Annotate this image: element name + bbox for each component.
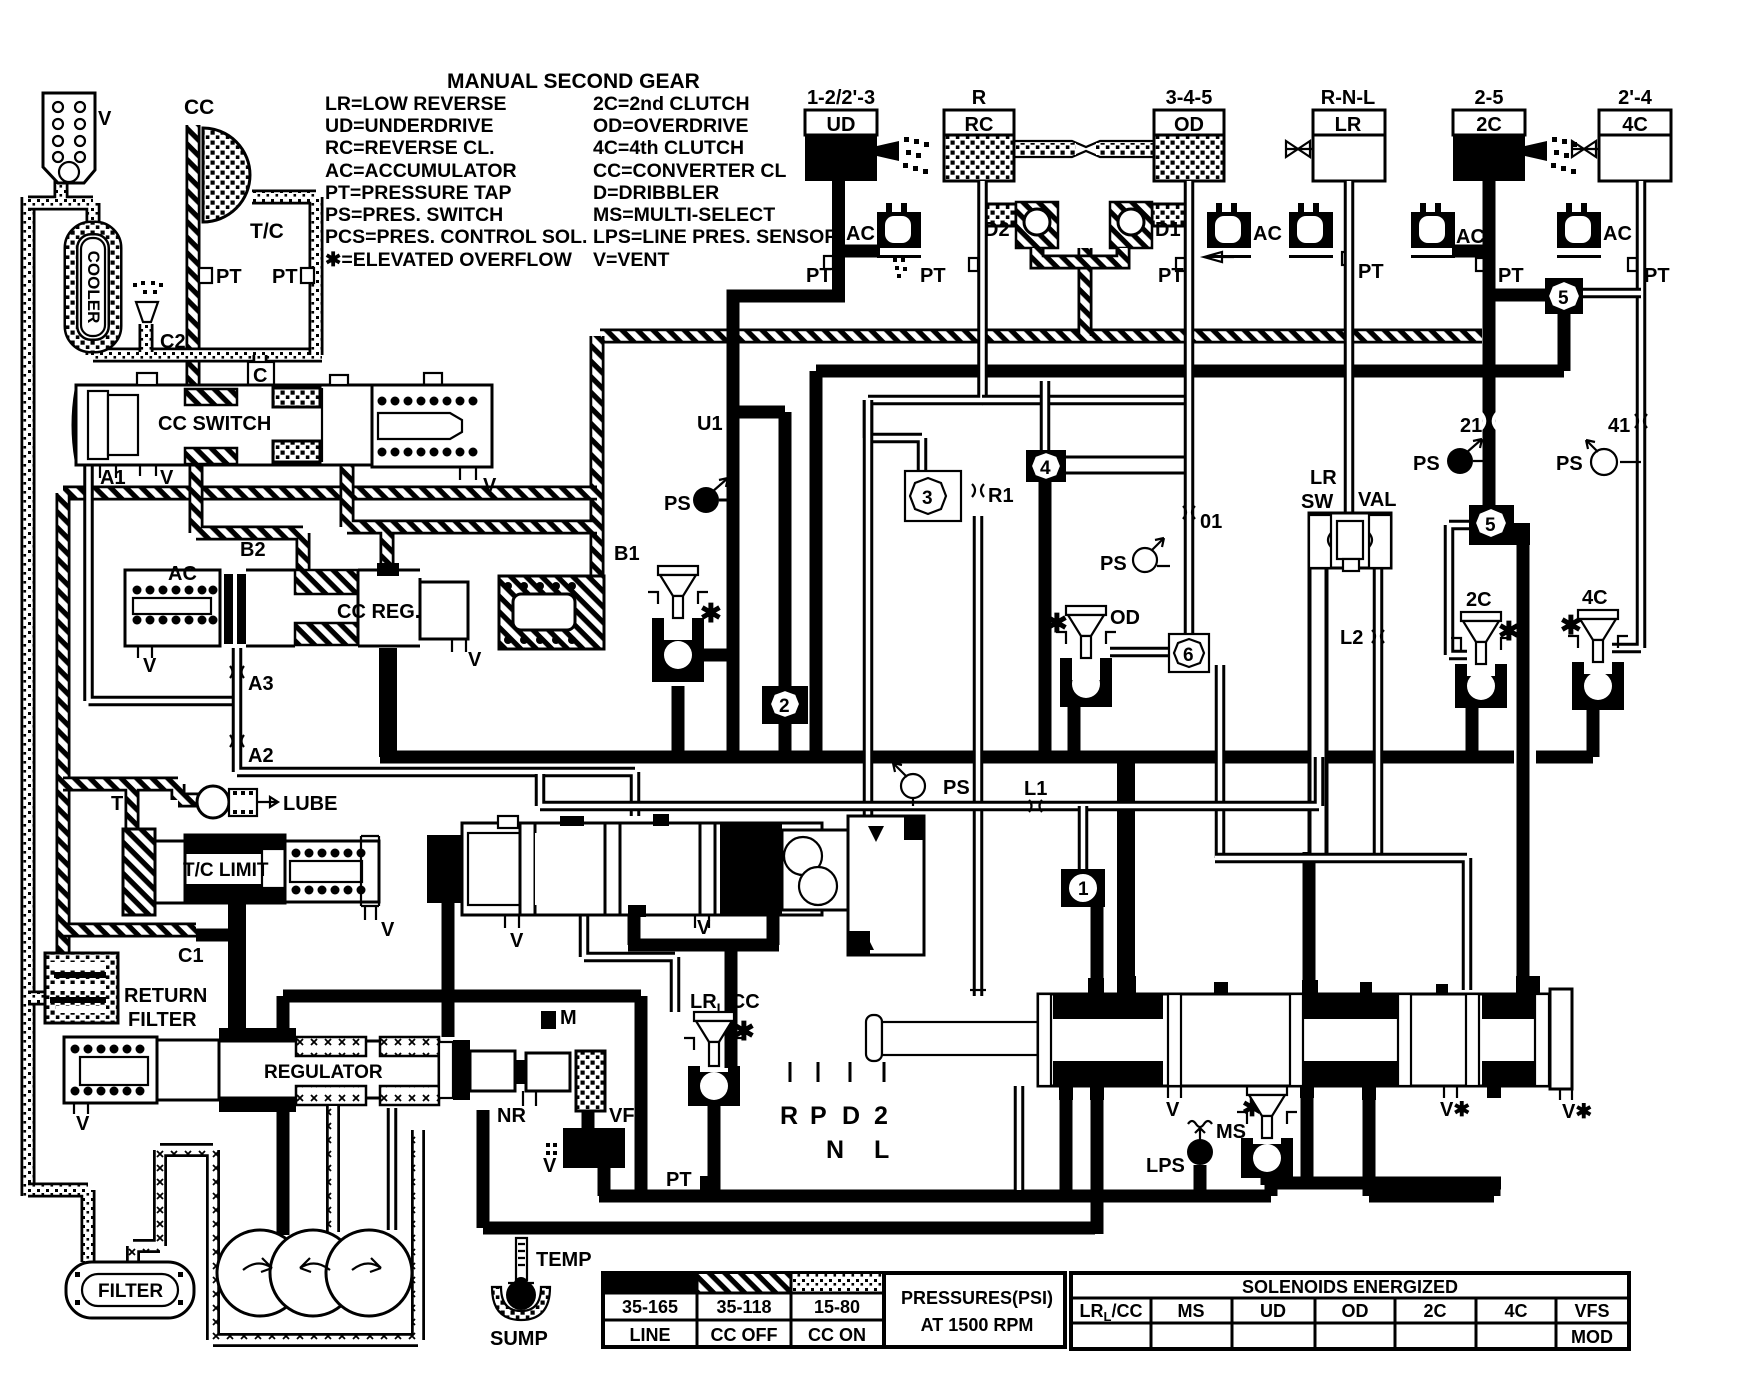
stipple tee R to D2 <box>985 204 1016 226</box>
svg-text:B2: B2 <box>240 539 266 561</box>
svg-text:AC: AC <box>846 223 875 245</box>
svg-text:PT=PRESSURE TAP: PT=PRESSURE TAP <box>325 182 512 204</box>
svg-text:V: V <box>510 930 524 952</box>
SEC:LINES <box>63 125 1482 953</box>
wire: B2 riser and line <box>196 464 303 573</box>
svg-text:5: 5 <box>1558 288 1569 309</box>
svg-text:R-N-L: R-N-L <box>1321 87 1375 109</box>
sump <box>492 1287 550 1320</box>
svg-text:PS=PRES. SWITCH: PS=PRES. SWITCH <box>325 204 503 226</box>
wire: thick CC REG output down <box>379 648 397 757</box>
valve REGULATOR <box>64 1037 157 1103</box>
svg-text:OD=OVERDRIVE: OD=OVERDRIVE <box>593 115 749 137</box>
wire: thick badge5-mid down to manual valve <box>1517 545 1530 998</box>
svg-text:OD: OD <box>1110 607 1140 629</box>
wire: B1 riser from CC SWITCH and y527 line <box>347 464 597 568</box>
svg-text:VF: VF <box>609 1105 635 1127</box>
svg-text:CC ON: CC ON <box>808 1325 866 1345</box>
svg-text:LR: LR <box>1310 467 1337 489</box>
svg-text:LR=LOW REVERSE: LR=LOW REVERSE <box>325 93 506 115</box>
svg-text:CC: CC <box>184 96 214 119</box>
svg-text:D=DRIBBLER: D=DRIBBLER <box>593 182 719 204</box>
wire: thin badge6 drop x1220 <box>1215 665 1226 858</box>
svg-text:PT: PT <box>920 265 946 287</box>
svg-text:✱: ✱ <box>1046 608 1068 638</box>
C2 dribbler <box>136 302 158 322</box>
dribbler at UD <box>877 141 899 161</box>
C port <box>248 362 274 386</box>
solenoid PCS <box>563 1128 625 1168</box>
svg-text:R: R <box>780 1102 798 1130</box>
svg-text:V✱: V✱ <box>1440 1099 1470 1121</box>
svg-text:V: V <box>160 467 174 489</box>
svg-text:2C: 2C <box>1476 114 1502 136</box>
thin line from badge5 top to 41 line <box>1583 288 1641 299</box>
SEC:CENTER <box>427 413 1014 955</box>
wire: thin manual valve left bottom pair <box>1014 1086 1025 1190</box>
svg-text:35-165: 35-165 <box>622 1297 678 1317</box>
valve manual valve <box>866 1015 882 1061</box>
svg-text:REGULATOR: REGULATOR <box>264 1062 383 1083</box>
svg-text:✱=ELEVATED OVERFLOW: ✱=ELEVATED OVERFLOW <box>325 249 573 271</box>
wire: long CC-OFF hatched line y336 <box>600 329 1482 344</box>
svg-text:PT: PT <box>1644 265 1670 287</box>
svg-text:SOLENOIDS ENERGIZED: SOLENOIDS ENERGIZED <box>1242 1277 1458 1297</box>
svg-text:R1: R1 <box>988 485 1014 507</box>
svg-text:PT: PT <box>1358 261 1384 283</box>
wire: thick badge4 leg <box>1039 480 1052 757</box>
svg-text:UD: UD <box>1260 1301 1286 1321</box>
svg-text:2: 2 <box>779 696 790 717</box>
wire: thick NR return line <box>483 1110 1095 1228</box>
CC REG spring chamber <box>499 576 604 649</box>
table pressures legend <box>603 1273 884 1347</box>
svg-text:2: 2 <box>874 1102 888 1130</box>
valve CC SWITCH <box>76 385 492 465</box>
SEC:LEFT <box>43 93 314 387</box>
svg-text:CC OFF: CC OFF <box>711 1325 778 1345</box>
stipple tee D1 to OD line <box>1152 204 1192 226</box>
svg-text:PT: PT <box>272 266 298 288</box>
svg-text:PT: PT <box>1158 265 1184 287</box>
wire: hatched D2 drop to y336 <box>1078 248 1093 336</box>
LUBE regulator ball <box>197 786 229 818</box>
svg-text:RETURN: RETURN <box>124 985 207 1007</box>
svg-text:V: V <box>1166 1099 1180 1121</box>
wire: thick LPS stub <box>1194 1165 1207 1190</box>
wire: thick LRL/CC check leg <box>708 1104 721 1196</box>
wire: thick solenoid valve right drop to LRL/CC <box>628 912 779 1068</box>
wire: thin 4C clutch line down to 4C check <box>1612 181 1641 648</box>
check mark below LR AC <box>1204 252 1234 262</box>
svg-text:A2: A2 <box>248 745 274 767</box>
dribbler at 2C <box>1525 141 1547 161</box>
thin R1 foot at manual valve <box>970 989 986 991</box>
wire: thick regulator out top line right and down <box>283 996 641 1196</box>
wire: thick UD clutch line from box down and left to U1 <box>733 179 839 757</box>
svg-text:3: 3 <box>922 488 933 509</box>
svg-text:MS=MULTI-SELECT: MS=MULTI-SELECT <box>593 204 775 226</box>
svg-text:V: V <box>76 1113 90 1135</box>
svg-text:FILTER: FILTER <box>98 1281 163 1302</box>
wire: hatched U between D2 and D1 <box>1037 248 1123 262</box>
svg-text:LR: LR <box>1335 114 1362 136</box>
svg-text:AC=ACCUMULATOR: AC=ACCUMULATOR <box>325 160 517 182</box>
svg-text:2-5: 2-5 <box>1475 87 1504 109</box>
wire: thick 2C AC tee <box>1452 245 1489 258</box>
wire: thick U1 branch to badge2 <box>733 412 785 757</box>
pressure switch PS at 41 <box>1591 449 1617 475</box>
wire: thick UD check outlet to U1 line <box>697 649 727 662</box>
wire: thin y394 line to OD column <box>982 395 1189 406</box>
svg-text:V✱: V✱ <box>1562 1101 1592 1123</box>
svg-text:A1: A1 <box>100 467 126 489</box>
svg-text:4C: 4C <box>1622 114 1648 136</box>
svg-text:B1: B1 <box>614 543 640 565</box>
wire: thick 2C check leg <box>1466 708 1479 757</box>
wire: thick AC tee at UD <box>838 245 880 258</box>
SEC:BOTTOM <box>866 976 1592 1123</box>
svg-text:VAL: VAL <box>1358 489 1397 511</box>
svg-text:15-80: 15-80 <box>814 1297 860 1317</box>
solenoid switch valve black section and spool <box>720 823 782 915</box>
wire: thin LR clutch line down to LR SW VAL <box>1344 181 1355 515</box>
manual valve bottom port pads <box>1059 1086 1073 1100</box>
manual valve vents <box>1168 1086 1181 1098</box>
svg-text:V: V <box>143 655 157 677</box>
wire: thin 4C PS stub line <box>1620 461 1641 463</box>
svg-text:V=VENT: V=VENT <box>593 249 669 271</box>
wire: thin L1 branch to badge1 <box>1078 806 1089 872</box>
svg-text:LPS: LPS <box>1146 1155 1185 1177</box>
wire: thin A1 line from CC SWITCH <box>89 464 233 701</box>
wire: hatched trunk x63 down to return filter <box>56 493 71 953</box>
wire: thick x1126 leg main line to manual valve <box>1117 757 1135 996</box>
accumulator AC (UD column) <box>877 203 921 258</box>
svg-text:PT: PT <box>666 1169 692 1191</box>
wire: thick badge5 tee <box>1489 289 1548 302</box>
svg-text:MOD: MOD <box>1571 1327 1613 1347</box>
svg-text:COOLER: COOLER <box>84 251 103 324</box>
svg-text:2C=2nd CLUTCH: 2C=2nd CLUTCH <box>593 93 750 115</box>
wire: CC hatched vertical at x193 <box>186 125 201 388</box>
svg-text:MANUAL SECOND GEAR: MANUAL SECOND GEAR <box>447 70 700 93</box>
wire: thick C1 tee and leg into regulator <box>196 929 237 942</box>
cooler <box>71 228 115 346</box>
svg-text:UD: UD <box>827 114 856 136</box>
svg-text:N: N <box>826 1136 844 1164</box>
wire: thick OD check leg <box>1068 705 1081 757</box>
wire: stipple stub into return filter <box>28 991 48 1006</box>
svg-text:V: V <box>543 1155 557 1177</box>
svg-text:PT: PT <box>1498 265 1524 287</box>
svg-text:T/C LIMIT: T/C LIMIT <box>183 860 269 881</box>
wire: thin badge4 link lines <box>1040 381 1051 452</box>
svg-text:V: V <box>697 917 711 939</box>
svg-text:01: 01 <box>1200 511 1222 533</box>
badge 2 <box>762 686 808 724</box>
shift gate <box>780 1062 889 1164</box>
wire: hatched corner down x597 to y493 then CC REG B1 riser <box>590 336 605 576</box>
svg-text:5: 5 <box>1485 515 1496 536</box>
badge 4 <box>1026 450 1066 482</box>
svg-text:T: T <box>111 793 123 815</box>
wire: thin badge6 left link to OD check <box>1110 647 1169 658</box>
SEC:TABLES <box>603 1273 1629 1349</box>
svg-text:4C: 4C <box>1504 1301 1527 1321</box>
wire: T/C dome top wall and right wall stipple <box>252 197 316 355</box>
svg-text:U1: U1 <box>697 413 723 435</box>
wire: thin L1 line <box>540 757 1319 806</box>
inlet at LR <box>1286 141 1313 157</box>
svg-text:V: V <box>381 919 395 941</box>
svg-text:LUBE: LUBE <box>283 793 337 815</box>
svg-text:L2: L2 <box>1340 627 1363 649</box>
svg-text:OD: OD <box>1174 114 1204 136</box>
pump circles <box>217 1230 303 1316</box>
SEC:TOPBOXES <box>805 87 1671 181</box>
wire: C stub from T/C to CC SWITCH <box>253 355 268 388</box>
T/C dome <box>203 128 250 222</box>
wire: T-frame hatched around T/C LIMIT <box>63 784 200 930</box>
svg-text:35-118: 35-118 <box>716 1297 771 1317</box>
PT tap ticks <box>824 256 833 269</box>
svg-text:LRL/CC: LRL/CC <box>1080 1301 1143 1324</box>
wire: thin OD clutch line down to badge6 <box>1184 181 1195 636</box>
svg-text:M: M <box>560 1007 577 1029</box>
svg-text:CC=CONVERTER CL: CC=CONVERTER CL <box>593 160 786 182</box>
svg-text:MS: MS <box>1178 1301 1205 1321</box>
CC SWITCH port stubs and labels <box>100 465 476 480</box>
svg-text:2C: 2C <box>1423 1301 1446 1321</box>
svg-text:L1: L1 <box>1024 778 1047 800</box>
wire: hatched y493 from x63 to x597 <box>63 486 597 501</box>
svg-text:PCS=PRES. CONTROL SOL.: PCS=PRES. CONTROL SOL. <box>325 226 587 248</box>
svg-text:3-4-5: 3-4-5 <box>1166 87 1213 109</box>
svg-text:21: 21 <box>1460 415 1482 437</box>
svg-text:2'-4: 2'-4 <box>1618 87 1653 109</box>
dribbler D2 <box>1016 202 1058 248</box>
wire: thick 4C check leg <box>1587 710 1600 757</box>
svg-text:D1: D1 <box>1155 219 1181 241</box>
svg-text:AT 1500 RPM: AT 1500 RPM <box>921 1315 1034 1335</box>
svg-text:TEMP: TEMP <box>536 1249 592 1271</box>
wire: thin A3/A2 line down and right <box>237 648 635 816</box>
svg-text:1: 1 <box>1078 879 1089 900</box>
pressure switch PS mid right <box>1133 548 1157 572</box>
wire: thin LR SW left leg <box>1308 568 1329 856</box>
svg-text:4C=4th CLUTCH: 4C=4th CLUTCH <box>593 137 744 159</box>
pressure switch PS on UD line <box>693 487 719 513</box>
wire: thin switch valve bottom to LRL/CC <box>584 915 675 1012</box>
svg-text:AC: AC <box>1253 223 1282 245</box>
badge 3 <box>905 471 961 521</box>
wire: thick bottom line y1196 <box>599 1183 1501 1196</box>
svg-text:PS: PS <box>943 777 970 799</box>
filter <box>66 1262 194 1318</box>
T/C LIMIT spring chamber <box>285 841 379 902</box>
svg-text:SW: SW <box>1301 491 1333 513</box>
svg-text:PS: PS <box>1100 553 1127 575</box>
connector RC-OD <box>1014 141 1154 157</box>
svg-text:C1: C1 <box>178 945 204 967</box>
M port <box>541 1011 556 1029</box>
valve solenoid switch <box>462 823 822 915</box>
T/C PT stubs <box>199 268 212 283</box>
svg-text:CC REG.: CC REG. <box>337 601 420 623</box>
badge 5 mid <box>1469 505 1514 545</box>
wire: thick PCS leg <box>598 1168 611 1196</box>
svg-text:V: V <box>483 475 497 497</box>
sensor LPS <box>1188 1121 1212 1127</box>
wire: thick badge1 leg <box>1091 905 1104 996</box>
inlet at 4C <box>1572 141 1599 157</box>
table pressures cell <box>884 1273 1065 1347</box>
table solenoids energized <box>1071 1273 1629 1349</box>
svg-text:CC SWITCH: CC SWITCH <box>158 413 271 435</box>
svg-text:RC=REVERSE CL.: RC=REVERSE CL. <box>325 137 495 159</box>
svg-text:PRESSURES(PSI): PRESSURES(PSI) <box>901 1288 1053 1308</box>
svg-text:PCS: PCS <box>565 1140 604 1161</box>
wire: stipple elbow to vent stack and cooler top <box>28 180 93 228</box>
svg-text:1-2/2'-3: 1-2/2'-3 <box>807 87 875 109</box>
temp gauge <box>516 1238 527 1280</box>
wire: C2 dribbler stub <box>139 324 154 352</box>
svg-text:SUMP: SUMP <box>490 1328 548 1350</box>
wire: thin x868 drop to switch valve <box>863 400 874 820</box>
vent stack top left <box>43 93 95 183</box>
svg-text:LINE: LINE <box>629 1325 670 1345</box>
svg-text:PS: PS <box>1413 453 1440 475</box>
wire: thin 5 badge loop to 2C check <box>1449 525 1470 655</box>
svg-text:RC: RC <box>965 114 994 136</box>
svg-text:PT: PT <box>216 266 242 288</box>
svg-text:OD: OD <box>1342 1301 1369 1321</box>
svg-text:NR: NR <box>497 1105 526 1127</box>
badge 1 <box>1061 869 1105 907</box>
badge 5 top <box>1545 278 1583 314</box>
wire: thick 2C clutch line down to badge5 <box>1483 179 1496 508</box>
svg-text:AC: AC <box>168 563 197 585</box>
wire: thick pump feed from regulator <box>277 1110 290 1235</box>
svg-text:C2: C2 <box>160 331 186 353</box>
svg-text:A3: A3 <box>248 673 274 695</box>
SEC:LEGEND <box>325 70 838 271</box>
suction X-duct <box>133 1130 418 1340</box>
svg-text:6: 6 <box>1183 645 1194 666</box>
wire: thick solenoid valve left leg into regulator <box>442 903 455 1037</box>
svg-text:2C: 2C <box>1466 589 1492 611</box>
wire: thin R/R1 line from RC to manual valve <box>868 181 983 996</box>
wire: cooler bottom stipple and line y355 <box>93 340 322 355</box>
VF block <box>576 1051 605 1111</box>
wire: thick LR SW leg to manual valve <box>1303 852 1316 996</box>
dribbler D1 <box>1110 202 1152 248</box>
svg-text:L: L <box>874 1136 889 1164</box>
svg-text:41: 41 <box>1608 415 1630 437</box>
svg-text:UD=UNDERDRIVE: UD=UNDERDRIVE <box>325 115 493 137</box>
SEC:RIGHT <box>1026 278 1647 710</box>
svg-text:VFS: VFS <box>1574 1301 1609 1321</box>
badge 6 <box>1169 634 1209 672</box>
svg-text:R: R <box>972 87 987 109</box>
wire: thick x816 vertical and y371 horizontal to badge5 <box>816 313 1564 757</box>
svg-text:AC: AC <box>1603 223 1632 245</box>
svg-text:P: P <box>810 1102 827 1130</box>
wire: thick manual valve bottom legs <box>1066 1086 1494 1234</box>
svg-text:PT: PT <box>806 265 832 287</box>
svg-text:D: D <box>842 1102 860 1130</box>
valve CC REG <box>125 570 220 646</box>
wire: stipple trunk x28 <box>21 197 36 1196</box>
pressure switch PS on L1 <box>901 774 925 798</box>
manual valve top port pads <box>1088 978 1104 994</box>
wire: thin L2 line from LR SW VAL <box>1373 568 1384 858</box>
svg-text:✱: ✱ <box>733 1016 755 1046</box>
wire: thick MS pocket stub <box>1261 1170 1274 1185</box>
valve T/C LIMIT <box>123 829 155 915</box>
svg-text:T/C: T/C <box>250 220 284 243</box>
svg-text:LPS=LINE PRES. SENSOR: LPS=LINE PRES. SENSOR <box>593 226 838 248</box>
svg-text:PS: PS <box>1556 453 1583 475</box>
pressure switch PS at 21 <box>1447 448 1473 474</box>
wire: main thick line y757 <box>380 751 1593 764</box>
svg-text:PS: PS <box>664 493 691 515</box>
svg-text:FILTER: FILTER <box>128 1009 197 1031</box>
CC SWITCH spring chamber <box>372 385 492 467</box>
svg-text:4C: 4C <box>1582 587 1608 609</box>
svg-text:V: V <box>468 649 482 671</box>
svg-text:D2: D2 <box>984 219 1010 241</box>
wire: medium line y858 right to V* drop <box>1215 858 1467 990</box>
return filter <box>45 953 118 1023</box>
dribbler below UD AC <box>893 258 907 278</box>
wire: thick UD check leg <box>672 686 685 757</box>
svg-text:V: V <box>98 108 112 130</box>
svg-text:4: 4 <box>1040 458 1051 479</box>
